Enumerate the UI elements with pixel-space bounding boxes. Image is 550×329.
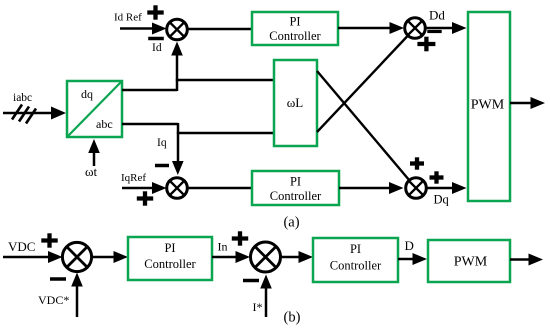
three-phase slashes — [12, 105, 36, 124]
svg-text:IqRef: IqRef — [121, 172, 146, 184]
svg-text:PI: PI — [289, 15, 300, 29]
plus sign at S2 — [417, 37, 435, 52]
PI controller U7 — [313, 238, 398, 282]
minus sign at S3 — [155, 164, 169, 168]
summing junction S5 — [62, 242, 91, 271]
svg-text:Controller: Controller — [269, 29, 321, 43]
wire PWM output — [510, 97, 545, 109]
svg-text:Controller: Controller — [330, 259, 382, 273]
svg-text:iabc: iabc — [13, 92, 32, 104]
wire wt input — [88, 139, 100, 166]
PI controller U2 — [252, 171, 339, 205]
wire S6 to U7 — [281, 251, 313, 263]
minus sign at S6 — [243, 279, 259, 283]
dq/abc transform block U3 — [67, 81, 122, 137]
svg-text:PWM: PWM — [454, 255, 488, 270]
PI controller U6 — [128, 237, 212, 280]
wire wL cross-coupling to S2 — [317, 36, 408, 133]
plus sign at S6 — [232, 231, 248, 245]
wire VDC* input — [71, 273, 83, 318]
svg-text:VDC: VDC — [8, 239, 35, 254]
wire PWM b output — [510, 254, 543, 266]
summing junction S4 — [406, 178, 427, 199]
wire I* input — [260, 275, 272, 318]
svg-text:Id Ref: Id Ref — [114, 12, 142, 24]
wire IqRef input — [122, 182, 167, 194]
svg-text:Iq: Iq — [157, 137, 167, 149]
svg-text:Dq: Dq — [434, 193, 450, 207]
plus sign at S5 — [41, 233, 57, 247]
svg-text:ωL: ωL — [287, 95, 304, 110]
svg-text:VDC*: VDC* — [38, 293, 69, 307]
wire dq output Iq — [122, 123, 178, 126]
wire Iq feedback to S3 — [172, 123, 184, 175]
wire VDC input — [3, 251, 63, 263]
wire S5 to U6 — [92, 251, 128, 263]
wire iabc input — [3, 107, 66, 120]
summing junction S1 — [167, 19, 188, 40]
wire U1 to summer S2 — [338, 22, 404, 34]
plus sign at S3 — [137, 191, 153, 205]
svg-text:dq: dq — [81, 87, 93, 101]
wire S4 to PWM — [427, 182, 467, 194]
svg-text:D: D — [405, 238, 414, 253]
wire S1 to PI controller U1 — [188, 28, 253, 30]
svg-text:abc: abc — [96, 117, 113, 131]
svg-text:(a): (a) — [283, 215, 299, 231]
wire S3 to PI controller U2 — [188, 187, 253, 189]
wire U7 to PWM U8 — [398, 253, 427, 265]
svg-text:PI: PI — [164, 241, 175, 255]
minus sign Id feedback — [148, 37, 164, 41]
wire wL cross-coupling to S4 — [317, 71, 410, 181]
svg-text:Dd: Dd — [429, 8, 445, 23]
wire U2 to S4 — [339, 182, 404, 194]
svg-text:Id: Id — [152, 42, 162, 54]
wire Iq branch to wL — [177, 132, 274, 135]
PI controller U1 — [252, 12, 338, 45]
summing junction S3 — [167, 178, 188, 199]
PWM block U8 — [428, 240, 510, 282]
wire S2 to PWM — [426, 22, 467, 34]
svg-text:PWM: PWM — [471, 98, 505, 113]
svg-text:Controller: Controller — [144, 257, 196, 271]
svg-text:ωt: ωt — [85, 164, 98, 179]
plus sign above S4 — [410, 157, 424, 169]
wire U6 to S6 — [212, 251, 250, 263]
minus sign at S2 output — [427, 30, 441, 33]
svg-text:Controller: Controller — [270, 189, 322, 203]
plus sign at summer S1 — [147, 5, 163, 19]
wire Id branch to wL — [176, 79, 274, 82]
svg-text:PI: PI — [290, 175, 301, 189]
wire IdRef input — [120, 23, 167, 35]
summing junction S2 — [405, 18, 426, 39]
wire Id feedback to S1 — [171, 42, 183, 92]
wL block U4 — [274, 60, 317, 146]
PWM block U5 — [468, 12, 510, 201]
svg-text:I*: I* — [253, 300, 263, 314]
summing junction S6 — [251, 242, 281, 272]
svg-text:In: In — [218, 240, 228, 254]
minus sign at S5 — [50, 277, 66, 281]
svg-text:(b): (b) — [284, 310, 301, 326]
plus sign right of S4 — [430, 171, 444, 183]
svg-text:PI: PI — [350, 242, 361, 256]
wire dq output Id — [122, 89, 177, 92]
